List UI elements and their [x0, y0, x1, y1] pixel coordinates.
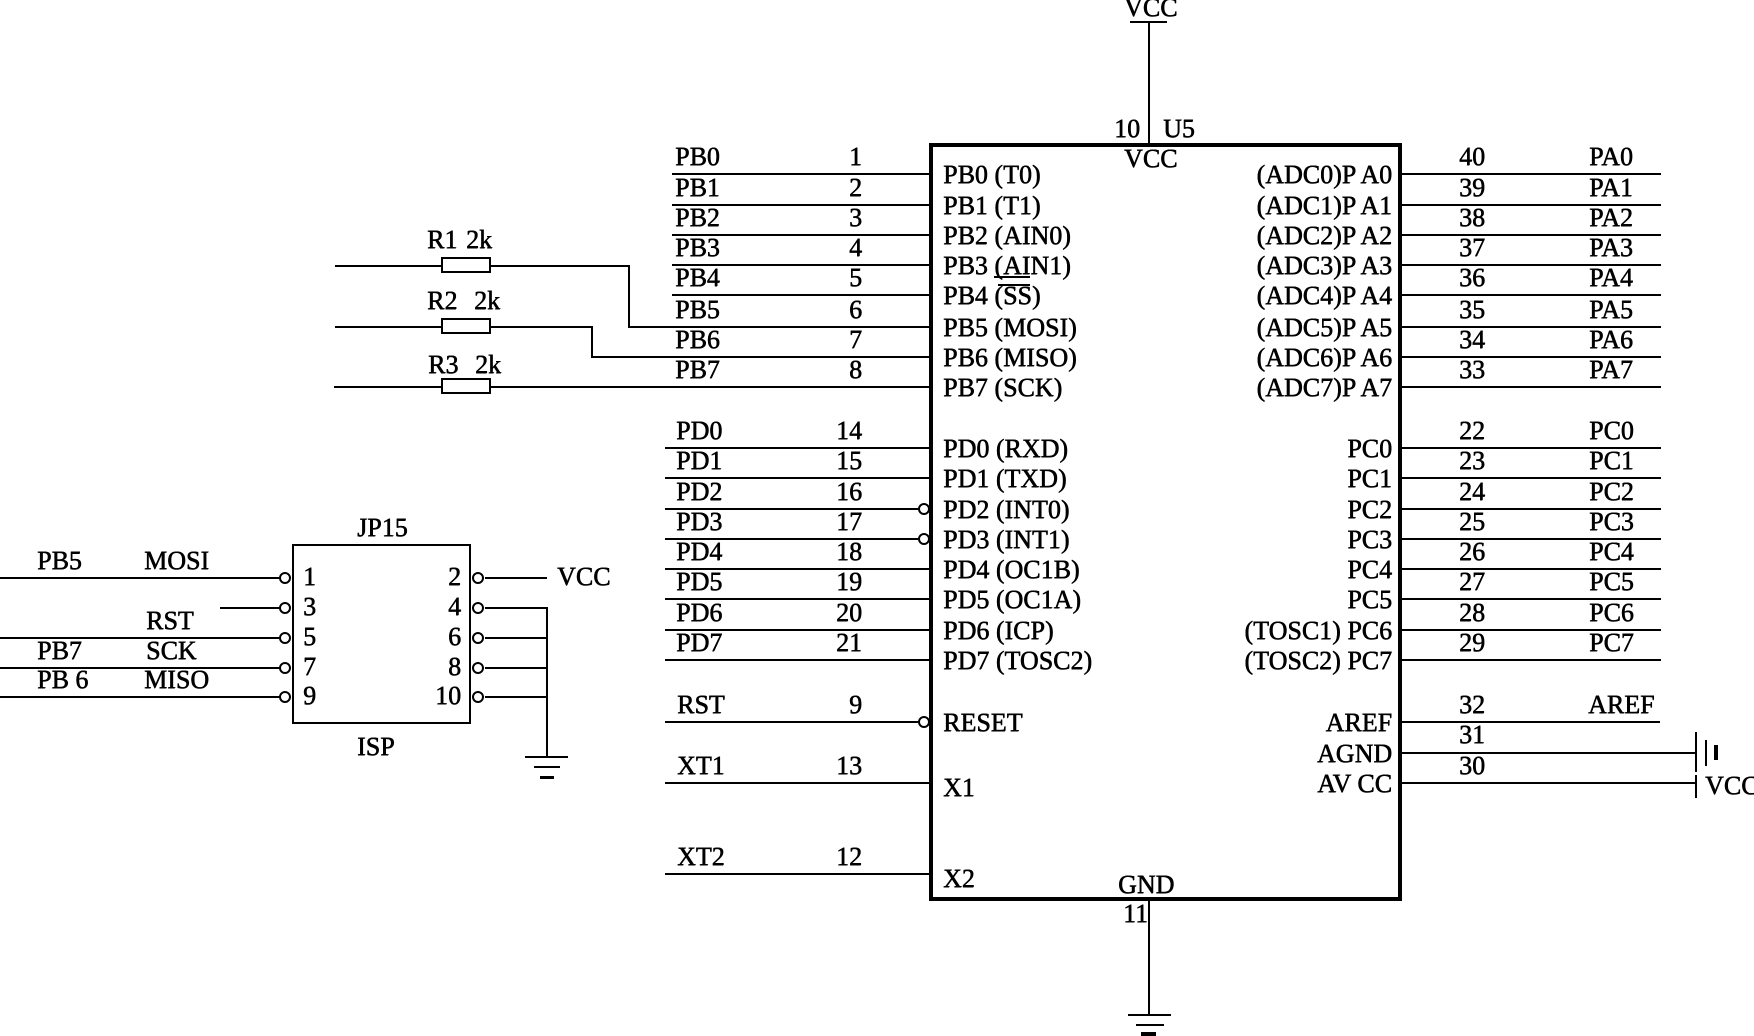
wire net XT2 to U5 pin 12 [665, 873, 931, 875]
pin name PB4 (SS) [943, 283, 1041, 309]
pin name (TOSC2) PC7 [1100, 648, 1392, 674]
power symbol VCC (top) label [1124, 0, 1177, 21]
net label PD3 [676, 509, 722, 535]
net label PC6 [1589, 600, 1634, 626]
pin number 32 [1459, 692, 1485, 718]
wire VCC to U5 pin 10 [1148, 22, 1150, 145]
overline bar over SS (PB4 pin name) [998, 284, 1030, 286]
pin name PB1 (T1) [943, 193, 1041, 219]
pin name PD6 (ICP) [943, 618, 1054, 644]
pin circle JP15 pin 1 [279, 572, 291, 584]
pin name PD0 (RXD) [943, 436, 1068, 462]
net label PC7 [1589, 630, 1634, 656]
pin number 3 [796, 205, 862, 231]
wire net PD7 to U5 pin 21 [665, 659, 931, 661]
pin name PB6 (MISO) [943, 345, 1077, 371]
wire JP15 pin 4 to ground bus [485, 607, 548, 609]
pin number 27 [1459, 569, 1485, 595]
pin number 40 [1459, 144, 1485, 170]
pin circle JP15 pin 6 [472, 632, 484, 644]
wire U5 pin 23 to net PC1 [1400, 477, 1661, 479]
pin number 17 [796, 509, 862, 535]
wire net PB5 to U5 pin 6 [628, 326, 931, 328]
pin name X1 [943, 775, 975, 801]
pin name GND (pin 11) [1118, 872, 1174, 898]
wire U5 pin 24 to net PC2 [1400, 508, 1661, 510]
pin number 10 [395, 683, 461, 709]
pin circle JP15 pin 9 [279, 691, 291, 703]
ground (right, rotated, AGND) [1695, 732, 1697, 772]
pin number 26 [1459, 539, 1485, 565]
pin number 28 [1459, 600, 1485, 626]
pin name (ADC3)P A3 [1100, 253, 1392, 279]
pin number 10 [1074, 116, 1140, 142]
pin number 25 [1459, 509, 1485, 535]
wire U5 pin 34 to net PA6 [1400, 356, 1661, 358]
wire ground bus (vertical) [546, 607, 548, 757]
label R2 [427, 288, 457, 314]
wire U5 pin 22 to net PC0 [1400, 447, 1661, 449]
pin number 38 [1459, 205, 1485, 231]
designator U5 [1163, 116, 1195, 142]
pin circle JP15 pin 2 [472, 572, 484, 584]
wire U5 pin 25 to net PC3 [1400, 538, 1661, 540]
pin name PC1 [1100, 466, 1392, 492]
pin name PB5 (MOSI) [943, 315, 1077, 341]
net label PD0 [676, 418, 722, 444]
wire net PD6 to U5 pin 20 [665, 629, 931, 631]
pin name (ADC0)P A0 [1100, 162, 1392, 188]
wire U5 pin 29 to net PC7 [1400, 659, 1661, 661]
pin number 2 [796, 175, 862, 201]
pin name PD3 (INT1) [943, 527, 1069, 553]
inverting bubble U5 pin 16 [918, 503, 930, 515]
pin number 15 [796, 448, 862, 474]
underline bar under AIN1 (PB3 pin name) [994, 276, 1030, 278]
pin number 1 [303, 564, 316, 590]
pin name AGND [1100, 741, 1392, 767]
net label PB1 [675, 175, 720, 201]
pin name PD1 (TXD) [943, 466, 1067, 492]
pin number 31 [1459, 722, 1485, 748]
pin number 9 [796, 692, 862, 718]
inverting bubble U5 pin 9 RESET [918, 716, 930, 728]
net label PA4 [1589, 265, 1633, 291]
wire U5 pin 28 to net PC6 [1400, 629, 1661, 631]
pin name PC0 [1100, 436, 1392, 462]
pin name X2 [943, 866, 975, 892]
net label PB7 [675, 357, 720, 383]
wire net PD4 to U5 pin 18 [665, 568, 931, 570]
pin number 34 [1459, 327, 1485, 353]
pin name PC5 [1100, 587, 1392, 613]
wire net PB4 to U5 pin 5 [672, 294, 931, 296]
power symbol VCC (top) bar [1130, 21, 1167, 23]
wire JP15 pin 6 to ground bus [485, 637, 548, 639]
net label RST [677, 692, 725, 718]
pin number 1 [796, 144, 862, 170]
ground (below U5) [1128, 1014, 1171, 1016]
wire stub to JP15 pin 3 [220, 607, 280, 609]
wire U5 pin 37 to net PA3 [1400, 264, 1661, 266]
pin name PD4 (OC1B) [943, 557, 1080, 583]
pin number 35 [1459, 297, 1485, 323]
value 2k (R3) [475, 352, 501, 378]
wire JP15 pin 10 to ground bus [485, 696, 548, 698]
pin number 2 [395, 564, 461, 590]
pin name PB0 (T0) [943, 162, 1041, 188]
pin number 8 [395, 654, 461, 680]
net label XT2 [677, 844, 725, 870]
pin number 6 [395, 624, 461, 650]
wire net PD0 to U5 pin 14 [665, 447, 931, 449]
net label PA7 [1589, 357, 1633, 383]
wire net RST to U5 pin 9 [665, 721, 918, 723]
resistor R3 [441, 378, 491, 394]
wire R1 left lead [335, 265, 443, 267]
wire net PB6 to U5 pin 7 [591, 356, 931, 358]
pin number 39 [1459, 175, 1485, 201]
pin name (ADC6)P A6 [1100, 345, 1392, 371]
pin name PD7 (TOSC2) [943, 648, 1092, 674]
resistor R2 [441, 318, 491, 334]
pin number 22 [1459, 418, 1485, 444]
pin name (TOSC1) PC6 [1100, 618, 1392, 644]
ground (below JP15) [525, 756, 568, 758]
net label XT1 [677, 753, 725, 779]
wire net MOSI to JP15 pin 1 [0, 577, 280, 579]
pin number 7 [303, 654, 316, 680]
wire net SCK to JP15 pin 7 [0, 667, 280, 669]
pin circle JP15 pin 5 [279, 632, 291, 644]
pin circle JP15 pin 7 [279, 662, 291, 674]
pin number 5 [303, 624, 316, 650]
wire R1 to PB5 (vertical) [628, 265, 630, 327]
pin name VCC (pin 10) [1124, 146, 1177, 172]
pin name RESET [943, 710, 1022, 736]
pin name AV CC [1100, 771, 1392, 797]
power symbol VCC (right, rotated) bar [1695, 775, 1697, 798]
pin name (ADC1)P A1 [1100, 193, 1392, 219]
wire R2 right lead [489, 326, 593, 328]
pin number 8 [796, 357, 862, 383]
wire net PB7 to U5 pin 8 [334, 386, 931, 388]
net label PB6 [675, 327, 720, 353]
net label PB3 [675, 235, 720, 261]
pin number 33 [1459, 357, 1485, 383]
net label PA6 [1589, 327, 1633, 353]
wire U5 pin 38 to net PA2 [1400, 234, 1661, 236]
pin number 5 [796, 265, 862, 291]
wire R2 to PB6 (vertical) [591, 326, 593, 357]
net label PB7 (SCK wire) [37, 638, 82, 664]
net label PC4 [1589, 539, 1634, 565]
net label PC2 [1589, 479, 1634, 505]
net label PD6 [676, 600, 722, 626]
designator JP15 [357, 515, 408, 541]
wire net XT1 to U5 pin 13 [665, 782, 931, 784]
pin number 7 [796, 327, 862, 353]
wire U5 pin 39 to net PA1 [1400, 204, 1661, 206]
resistor R1 [441, 257, 491, 273]
value 2k (R2) [474, 288, 500, 314]
net label PA2 [1589, 205, 1633, 231]
pin name (ADC7)P A7 [1100, 375, 1392, 401]
wire U5 pin 11 to ground [1148, 899, 1150, 1015]
wire JP15 pin 8 to ground bus [485, 667, 548, 669]
pin name (ADC4)P A4 [1100, 283, 1392, 309]
pin number 18 [796, 539, 862, 565]
net label PC3 [1589, 509, 1634, 535]
pin name AREF [1100, 710, 1392, 736]
wire R1 right lead [489, 265, 629, 267]
wire net PD1 to U5 pin 15 [665, 477, 931, 479]
pin circle JP15 pin 10 [472, 691, 484, 703]
label ISP [357, 734, 395, 760]
wire U5 pin 35 to net PA5 [1400, 326, 1661, 328]
wire net PB0 to U5 pin 1 [672, 173, 931, 175]
wire net PB1 to U5 pin 2 [672, 204, 931, 206]
pin name PB7 (SCK) [943, 375, 1062, 401]
label R1 [427, 227, 457, 253]
pin number 36 [1459, 265, 1485, 291]
wire U5 pin 33 to net PA7 [1400, 386, 1661, 388]
net label PC5 [1589, 569, 1634, 595]
pin name PD2 (INT0) [943, 497, 1069, 523]
net label PD1 [676, 448, 722, 474]
net label SCK [146, 638, 197, 664]
pin number 29 [1459, 630, 1485, 656]
pin number 11 [1123, 901, 1148, 927]
net label PB2 [675, 205, 720, 231]
pin name PB3 (AIN1) [943, 253, 1071, 279]
pin number 21 [796, 630, 862, 656]
value 2k (R1) [466, 227, 492, 253]
inverting bubble U5 pin 17 [918, 533, 930, 545]
pin number 30 [1459, 753, 1485, 779]
net label PB 6 (MISO wire) [37, 667, 88, 693]
pin name PC3 [1100, 527, 1392, 553]
pin name (ADC5)P A5 [1100, 315, 1392, 341]
wire U5 pin 27 to net PC5 [1400, 598, 1661, 600]
net label PB4 [675, 265, 720, 291]
net label RST (JP15) [146, 608, 194, 634]
power symbol VCC (right) label [1705, 773, 1754, 799]
wire R2 left lead [335, 326, 443, 328]
wire net PD2 to U5 pin 16 [665, 508, 918, 510]
net label PA3 [1589, 235, 1633, 261]
pin number 23 [1459, 448, 1485, 474]
pin number 20 [796, 600, 862, 626]
pin number 16 [796, 479, 862, 505]
wire net MISO to JP15 pin 9 [0, 696, 280, 698]
wire net PD5 to U5 pin 19 [665, 598, 931, 600]
wire U5 pin 32 to net AREF [1400, 721, 1660, 723]
net label PB0 [675, 144, 720, 170]
pin number 12 [796, 844, 862, 870]
pin number 37 [1459, 235, 1485, 261]
wire net RST to JP15 pin 5 [0, 637, 280, 639]
pin number 14 [796, 418, 862, 444]
net label AREF [1588, 692, 1654, 718]
net label PD4 [676, 539, 722, 565]
label R3 [428, 352, 458, 378]
wire net PB2 to U5 pin 3 [672, 234, 931, 236]
pin circle JP15 pin 3 [279, 602, 291, 614]
pin number 6 [796, 297, 862, 323]
wire net PD3 to U5 pin 17 [665, 538, 918, 540]
connector JP15 body [292, 544, 471, 724]
power label VCC (JP15 pin 2) [557, 564, 610, 590]
net label PD7 [676, 630, 722, 656]
pin name (ADC2)P A2 [1100, 223, 1392, 249]
net label PC0 [1589, 418, 1634, 444]
net label PD5 [676, 569, 722, 595]
pin circle JP15 pin 4 [472, 602, 484, 614]
net label PA0 [1589, 144, 1633, 170]
wire U5 pin 36 to net PA4 [1400, 294, 1661, 296]
net label PA5 [1589, 297, 1633, 323]
net label PB5 (MOSI wire) [37, 548, 82, 574]
net label MISO [144, 667, 209, 693]
net label PB5 [675, 297, 720, 323]
pin number 4 [796, 235, 862, 261]
wire U5 pin 40 to net PA0 [1400, 173, 1661, 175]
pin name PB2 (AIN0) [943, 223, 1071, 249]
net label PC1 [1589, 448, 1634, 474]
wire U5 pin 31 to ground [1400, 752, 1696, 754]
pin circle JP15 pin 8 [472, 662, 484, 674]
wire JP15 pin 2 to VCC [485, 577, 547, 579]
pin number 3 [303, 594, 316, 620]
wire U5 pin 26 to net PC4 [1400, 568, 1661, 570]
pin name PC4 [1100, 557, 1392, 583]
pin number 19 [796, 569, 862, 595]
pin number 4 [395, 594, 461, 620]
wire U5 pin 30 to VCC [1400, 782, 1696, 784]
pin number 9 [303, 683, 316, 709]
pin name PC2 [1100, 497, 1392, 523]
pin number 13 [796, 753, 862, 779]
net label MOSI [144, 548, 209, 574]
net label PD2 [676, 479, 722, 505]
IC U5 body [929, 143, 1402, 901]
net label PA1 [1589, 175, 1633, 201]
wire net PB3 to U5 pin 4 [672, 264, 931, 266]
pin number 24 [1459, 479, 1485, 505]
pin name PD5 (OC1A) [943, 587, 1081, 613]
